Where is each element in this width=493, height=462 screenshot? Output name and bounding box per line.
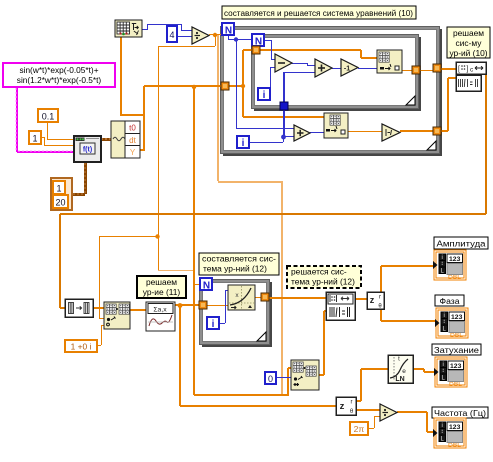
for loop - inner equation system (252, 35, 422, 112)
solve-12 VI icons A and B (326, 292, 355, 320)
svg-text:1: 1 (32, 134, 37, 144)
wire: 2pi constant to divide (368, 428, 374, 429)
svg-text:Амплитуда: Амплитуда (437, 239, 486, 249)
tunnel: inner loop bottom blue tunnel (280, 102, 288, 110)
wire: inside loop10 from left tunnel up to inner tunnel and down to build icon (228, 85, 243, 87)
complex to polar z1 (367, 292, 384, 309)
tunnel: loop10 right output vector (433, 127, 441, 135)
indicator: Затухание array (435, 357, 467, 387)
complex to polar z2 (336, 397, 356, 415)
svg-text:Y: Y (130, 148, 136, 157)
wire: interp icon to right tunnel of loop12 (255, 297, 261, 298)
svg-text:r: r (351, 400, 353, 406)
junction at 157,236 branch left and down (99, 236, 158, 237)
label: Затухание (432, 344, 481, 355)
label: system of equations (10) (222, 6, 416, 19)
svg-text:sin(w*t)*exp(-0.05*t)+: sin(w*t)*exp(-0.05*t)+ (19, 65, 98, 75)
svg-text:0: 0 (268, 374, 273, 384)
wire: complex constant 1+0i to matrix icon (97, 345, 101, 346)
wire: divide output to frequency indicator (397, 411, 427, 413)
svg-text:123: 123 (450, 363, 462, 370)
wire: z1 theta output down to phase indicator (380, 309, 382, 321)
svg-text:LN: LN (395, 376, 404, 383)
wire: branch to waveform-time-array icon (121, 114, 145, 116)
svg-text:dt: dt (129, 136, 136, 145)
svg-text:sin(1.2*w*t)*exp(-0.5*t): sin(1.2*w*t)*exp(-0.5*t) (17, 75, 102, 85)
subtract function (275, 54, 292, 72)
wire: 0 constant to matrix multiply icon (blue) (275, 377, 291, 378)
svg-text:DBL: DBL (448, 275, 462, 281)
wire: lower right tunnel up to solve vi B (441, 130, 448, 132)
wire: solve output big loop back to left (485, 70, 487, 214)
wire: z2 theta output to divide (356, 409, 380, 411)
wire: adder to build-array icon (blue) (310, 132, 324, 133)
N terminal of loop 10 (222, 23, 234, 35)
tunnel: loop10 right output matrix (433, 64, 441, 72)
build array icon loop10 body (324, 113, 348, 138)
label: Фаза (435, 295, 464, 306)
junction x194 on Y wire, long vertical down (192, 85, 196, 89)
string constant: formula sin(w*t)... (3, 63, 115, 87)
svg-text:решаем: решаем (146, 277, 177, 287)
indicator: Амплитуда array (434, 250, 466, 280)
svg-text:r: r (379, 295, 381, 301)
svg-text:123: 123 (449, 256, 461, 263)
build array icon inner loop (377, 50, 402, 73)
wire: y395 right to matrix multiply icon (194, 394, 288, 396)
wire: string constant to formula node (magenta) (16, 87, 18, 152)
array to matrix icon (65, 299, 93, 317)
svg-text:тема ур-ний (12): тема ур-ний (12) (291, 277, 355, 287)
interpolate icon in loop12 (228, 285, 255, 310)
tunnel: inner loop left input (252, 46, 260, 54)
svg-text:z: z (340, 401, 345, 412)
svg-text:ур-ие (11): ур-ие (11) (143, 287, 181, 297)
svg-text:i: i (263, 90, 266, 101)
svg-text:Σa,x: Σa,x (153, 307, 167, 314)
svg-text:DBL: DBL (450, 333, 464, 339)
complex constant 1+0i (65, 340, 97, 352)
wire: N of loop10 to inner N (blue) (236, 39, 252, 40)
wire: Y component thick array wire to loop tunnel (143, 86, 145, 151)
divide by 2pi function (380, 404, 397, 421)
constant 2pi (350, 422, 368, 435)
svg-text:[: [ (458, 66, 460, 73)
wire: icon chain in solve-11 section (93, 307, 104, 309)
svg-text:i: i (212, 319, 215, 330)
wire: natural log to damping indicator (413, 368, 424, 370)
matrix multiply icon solve-11 (104, 302, 130, 329)
numeric constant 1 (29, 131, 41, 144)
label: compose system (12) (199, 253, 279, 275)
svg-text:0.1: 0.1 (42, 112, 55, 122)
wire: z1 r output up to amplitude indicator (380, 266, 382, 292)
polynomial sigma icon (146, 302, 175, 331)
svg-text:ур-ий (10): ур-ий (10) (449, 48, 487, 58)
i terminal of inner loop (258, 88, 270, 100)
svg-text:N: N (225, 26, 232, 37)
matrix-vector multiply icon bottom (291, 360, 319, 390)
wire: cluster constant 1/20 to formula node (brown cluster) (72, 193, 85, 196)
wire: constant 1 to formula node (41, 137, 44, 138)
svg-text:DBL: DBL (449, 382, 463, 388)
svg-text:2π: 2π (354, 424, 365, 434)
formula node f(t) eval VI (74, 136, 101, 162)
svg-text:123: 123 (451, 314, 463, 321)
wire: formula node to get waveform components (brown waveform) (101, 138, 111, 141)
add function inner (315, 59, 332, 77)
svg-text:4: 4 (169, 30, 174, 40)
svg-text:составляется сис-: составляется сис- (202, 254, 276, 264)
svg-text:i: i (442, 423, 443, 429)
svg-text:N: N (203, 281, 210, 292)
N terminal of inner loop (252, 34, 264, 46)
label: solve system (10) (447, 27, 490, 58)
wire: bend y181 across to x282 (218, 181, 282, 183)
svg-text:f(t): f(t) (83, 146, 92, 153)
svg-text:решается сис-: решается сис- (291, 267, 347, 277)
svg-text:сис-му: сис-му (456, 38, 483, 48)
svg-text:]: ] (467, 66, 469, 73)
indicator: Частота array (434, 418, 466, 448)
solve VI A: matrix converter (456, 62, 486, 74)
wire: constant 0.1 to formula node (47, 122, 48, 139)
svg-text:i: i (444, 313, 445, 319)
tunnel: loop10 left input (221, 82, 229, 90)
add function in loop10 body (294, 125, 310, 141)
svg-text:тема ур-ний (12): тема ур-ний (12) (203, 264, 267, 274)
wire: waveform time array to divide (blue) (142, 29, 147, 30)
label: Частота (Гц) (432, 407, 488, 418)
svg-text:Частота (Гц): Частота (Гц) (434, 408, 486, 418)
i terminal of loop 10 (237, 136, 249, 148)
tunnel: inner loop right output (412, 66, 420, 74)
label: solve system (12) dashed (287, 266, 361, 288)
divide function (192, 27, 209, 44)
for loop 12 (200, 280, 273, 348)
wire: outer i terminal to adder and up through blue tunnel (blue) (249, 142, 283, 143)
waveform time array icon (115, 20, 142, 37)
wires inside inner loop: N and i to subtract (blue) (264, 40, 271, 41)
cluster constant 1 / 20 (51, 178, 72, 210)
svg-text:z: z (370, 295, 375, 305)
wire: divide output to N terminal of loop 10 (209, 34, 222, 35)
svg-text:123: 123 (449, 424, 461, 431)
i terminal of loop 12 (207, 317, 219, 329)
svg-text:решаем: решаем (453, 28, 484, 38)
svg-text:i: i (242, 138, 245, 149)
svg-text:i: i (443, 362, 444, 368)
tunnel: loop12 left input (199, 301, 207, 309)
svg-text:t0: t0 (129, 124, 136, 133)
wire: matrix multiply output up to solve-12 icon B (319, 374, 324, 376)
get waveform components node t0 dt Y (111, 121, 140, 158)
label: Амплитуда (434, 237, 488, 249)
reciprocal function (382, 124, 400, 141)
svg-text:i: i (442, 255, 443, 261)
label: solve equation (11) (137, 276, 186, 298)
wire: inner loop + lower input from tunnel (blue) (284, 72, 315, 73)
numeric constant 0.1 (38, 109, 58, 122)
svg-text:1: 1 (56, 184, 61, 194)
solve VI B: solve linear equations (456, 75, 481, 91)
wire: build-array icon to reciprocal to right tunnel (348, 131, 382, 132)
svg-text:составляется и решается систем: составляется и решается система уравнени… (224, 8, 413, 18)
wire: N of loop10 down to adder (blue) (228, 35, 229, 39)
svg-text:20: 20 (55, 198, 65, 208)
indicator: Фаза array (436, 308, 468, 338)
wire: grid icon to inner right tunnel to outer tunnel (402, 70, 412, 71)
wire: divide output branch x218 down to bend y181 (217, 35, 219, 181)
svg-text:1 +0 i: 1 +0 i (71, 342, 92, 352)
wire: sigma icon output to loop12 tunnel with branch down to z2 (175, 304, 199, 306)
wire: divide output down-left long vertical x158 (215, 35, 216, 46)
for loop 10 - outer (221, 27, 443, 157)
numeric constant 4 (167, 26, 177, 42)
svg-text:-1: -1 (344, 66, 350, 73)
wire: top right tunnel to solve vi A (441, 68, 456, 70)
wire: constant 4 to divide (blue) (177, 36, 192, 37)
stub to N terminal of loop 12 (194, 284, 200, 285)
multiply by -1 function (341, 59, 358, 76)
wires inside loop 12: tunnel to interp icon, i terminal up (207, 305, 228, 306)
wire: loop12 tunnel to solve-12 icon A (268, 297, 326, 299)
wire: subtract to add to -1 to grid icon (blue) (292, 63, 307, 64)
svg-text:Затухание: Затухание (434, 345, 479, 355)
N terminal of loop 12 (200, 278, 212, 290)
wire: solve-12 output to z1 complex-to-polar (354, 298, 367, 300)
tunnel: loop12 right output (261, 293, 269, 301)
wire: z2 r output up to natural log icon (356, 400, 361, 402)
svg-text:Фаза: Фаза (440, 296, 460, 306)
numeric constant 0 blue (265, 372, 276, 384)
svg-text:DBL: DBL (448, 443, 462, 449)
natural logarithm icon (388, 355, 413, 383)
wire: long vertical x282 down to y396 (281, 181, 283, 396)
wire: inner tunnel to array grid icon inside inner loop (260, 49, 361, 51)
svg-text:e: e (402, 368, 406, 375)
